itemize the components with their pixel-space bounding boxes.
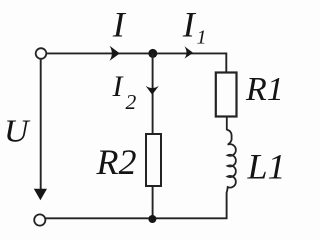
wire right branch top lead [225,53,227,73]
svg-text:L1: L1 [247,147,286,187]
svg-text:2: 2 [126,90,137,114]
wire middle branch [152,53,154,134]
resistor R2 [146,134,161,186]
svg-text:I: I [182,4,197,44]
resistor R1 [216,73,237,117]
svg-text:U: U [4,113,31,149]
current arrow I1 [184,46,193,58]
svg-text:1: 1 [197,26,207,48]
svg-text:R2: R2 [96,142,137,182]
svg-text:I: I [112,4,127,44]
wire L1 bottom lead and bottom wire [46,193,227,219]
node junction top [148,49,157,58]
wire top horizontal [47,52,227,54]
voltage arrow U line [40,60,42,190]
voltage arrow U head [34,189,47,201]
terminal (top input) [36,48,47,59]
svg-text:I: I [112,70,125,103]
inductor L1 [227,135,236,193]
svg-text:R1: R1 [245,71,284,108]
terminal (bottom input) [34,214,45,225]
wire R1 to L1 lead [227,117,232,136]
wire R2 bottom lead [152,186,154,218]
current arrow I2 [146,86,159,95]
current arrow I [110,46,120,61]
node junction bottom [148,215,156,223]
